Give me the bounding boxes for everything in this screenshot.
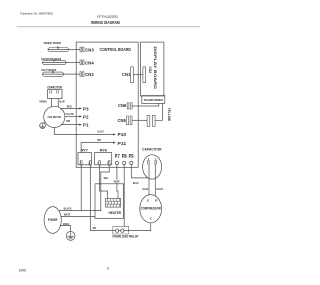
compressor M2 [140, 195, 162, 223]
svg-text:YELLOW: YELLOW [65, 112, 74, 116]
evaporator sensor probe [43, 60, 67, 64]
svg-text:COMPRESSOR: COMPRESSOR [141, 207, 162, 211]
svg-text:CN4: CN4 [85, 61, 94, 66]
transformer primary plug [147, 115, 150, 126]
svg-text:OVERLOAD RELAY: OVERLOAD RELAY [112, 234, 139, 238]
svg-text:CN5: CN5 [118, 118, 127, 123]
wire power green to ground [60, 226, 71, 232]
wire rd RY7 to P11 [81, 143, 113, 153]
svg-text:BLUE: BLUE [142, 187, 148, 191]
transformer T1 box [142, 96, 165, 104]
connector CN3 [80, 47, 81, 52]
fan motor M1 [44, 106, 65, 127]
wire rd fan to P1 [62, 124, 80, 126]
svg-text:CN1: CN1 [122, 72, 131, 77]
svg-text:EWS: EWS [19, 269, 26, 273]
svg-text:S: S [147, 199, 149, 203]
wire P9 to compressor capacitor blue [131, 165, 147, 178]
svg-text:FAN MOTOR: FAN MOTOR [48, 115, 61, 119]
fan capacitor C1 [48, 90, 62, 99]
svg-text:P9: P9 [129, 154, 134, 160]
wire power black [59, 210, 101, 212]
svg-text:RY7: RY7 [81, 149, 88, 153]
svg-text:RD: RD [97, 138, 101, 142]
svg-text:P2: P2 [83, 114, 89, 119]
svg-text:TRANSFORMER: TRANSFORMER [144, 98, 164, 102]
svg-text:P1: P1 [83, 122, 89, 127]
svg-text:CN2: CN2 [85, 72, 94, 77]
duct sensor probe [43, 72, 64, 76]
header rule [17, 26, 200, 28]
heater enclosure box [95, 184, 123, 219]
svg-text:FFTH1022R2: FFTH1022R2 [97, 15, 118, 19]
wire P8 to overload [123, 165, 125, 227]
wire plug to transformer [155, 103, 163, 120]
svg-text:YELLOW: YELLOW [167, 108, 171, 122]
wire P7 to heater white [117, 165, 118, 199]
wire capacitor to fan motor blue [57, 99, 59, 107]
svg-text:WH: WH [104, 176, 108, 180]
wire evaporator sensor to CN4 [66, 61, 80, 63]
control board U1 [76, 42, 138, 167]
svg-text:CONTROL BOARD: CONTROL BOARD [100, 47, 132, 52]
overload relay [113, 227, 129, 234]
ambient sensor probe [48, 48, 69, 52]
svg-text:AMBIENT SENSOR: AMBIENT SENSOR [43, 41, 61, 45]
svg-text:POWER: POWER [48, 218, 58, 222]
wire RY6 pin4 to heater [100, 165, 108, 199]
svg-text:DUCT SENSOR: DUCT SENSOR [41, 68, 57, 72]
fan motor ground [44, 122, 46, 124]
svg-text:P3: P3 [83, 106, 89, 111]
svg-text:P8: P8 [122, 154, 127, 160]
power cord [44, 207, 61, 234]
svg-text:WHITE: WHITE [114, 180, 120, 184]
svg-text:BLACK: BLACK [157, 187, 164, 191]
wire capacitor to compressor R black [154, 164, 156, 195]
svg-text:CAPACITOR: CAPACITOR [142, 146, 162, 151]
wire CN1 to CN2 display [133, 74, 143, 76]
wire CN5 to plug [132, 119, 147, 121]
svg-text:BLUE: BLUE [133, 181, 139, 185]
wire CN6 to transformer [132, 103, 159, 106]
svg-text:RD: RD [66, 119, 70, 123]
wire red fan to P3 [61, 108, 80, 110]
svg-text:CN6: CN6 [118, 103, 127, 108]
wire ambient sensor to CN3 [69, 49, 81, 51]
svg-text:DISPLAY BOARD: DISPLAY BOARD [153, 46, 158, 89]
ground symbol [66, 232, 75, 241]
wire capacitor to fan motor brown [50, 99, 52, 108]
svg-text:WIRING DIAGRAM: WIRING DIAGRAM [91, 20, 120, 25]
svg-text:BLACK: BLACK [97, 130, 103, 134]
wire RY6 pin3 to power black junction [101, 165, 109, 211]
display board U2 [141, 42, 164, 96]
wire power white [61, 215, 95, 217]
svg-text:6: 6 [107, 267, 109, 271]
svg-text:GREEN: GREEN [63, 222, 69, 226]
wire capacitor to compressor S blue [148, 164, 150, 195]
wire duct sensor to CN2 [64, 73, 81, 75]
wire yellow fan to P2 [65, 116, 80, 118]
svg-text:P11: P11 [118, 141, 127, 146]
svg-text:P7: P7 [115, 154, 120, 160]
compressor capacitor C2 [143, 155, 162, 179]
connector CN4 [80, 60, 81, 65]
svg-text:CN3: CN3 [85, 48, 94, 53]
wire RY7 pin1 to power black [80, 165, 82, 211]
wire compressor C to overload [128, 223, 150, 231]
svg-text:BK: BK [93, 226, 97, 230]
svg-text:CAPACITOR: CAPACITOR [47, 85, 62, 89]
svg-text:WHITE: WHITE [64, 213, 71, 217]
svg-text:P10: P10 [118, 132, 127, 137]
heater element [106, 198, 121, 207]
svg-text:BLUE: BLUE [59, 100, 65, 104]
svg-text:RED: RED [67, 105, 72, 109]
svg-text:RY6: RY6 [100, 149, 107, 153]
svg-text:HEATER: HEATER [109, 211, 122, 215]
svg-text:BROWN: BROWN [40, 100, 47, 104]
svg-text:BLACK: BLACK [64, 206, 72, 210]
wire RY7 pin2 to overload bk [90, 165, 115, 231]
connector CN2 display board side [143, 67, 146, 83]
svg-text:CN2: CN2 [148, 67, 152, 74]
connector CN2 [80, 72, 81, 77]
wire black fan motor to P10 [54, 128, 113, 135]
svg-text:Publication No. 5995573891: Publication No. 5995573891 [20, 11, 53, 15]
